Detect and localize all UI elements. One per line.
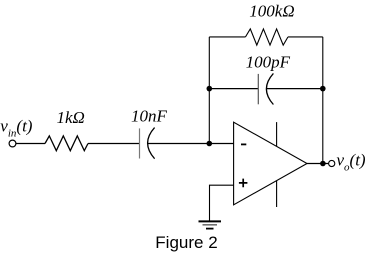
- wire top feedback horizontal left: [209, 36, 245, 38]
- ground: [199, 221, 222, 228]
- output terminal v_o(t): [329, 160, 335, 166]
- op-amp U1 negative supply pin: [276, 181, 278, 207]
- capacitor C1 10nF right curved plate: [148, 128, 155, 159]
- wire non-inverting input to ground drop: [210, 185, 234, 221]
- svg-text:1kΩ: 1kΩ: [57, 108, 85, 127]
- resistor R2 100k zigzag: [246, 29, 289, 45]
- wire feedback left vertical: [208, 37, 210, 144]
- svg-text:10nF: 10nF: [131, 107, 168, 126]
- node D junction dot (output): [320, 161, 326, 167]
- input terminal v_in(t): [9, 140, 16, 147]
- svg-text:Figure 2: Figure 2: [155, 233, 217, 252]
- op-amp U1 positive supply pin: [276, 122, 278, 146]
- svg-text:100kΩ: 100kΩ: [249, 2, 294, 21]
- wire op-amp output: [307, 163, 328, 165]
- capacitor C2 100pF right curved plate: [266, 73, 273, 104]
- wire feedback right vertical: [322, 37, 324, 164]
- wire top feedback horizontal right: [288, 36, 323, 38]
- wire R1 to C1: [88, 143, 140, 145]
- svg-text:100pF: 100pF: [246, 52, 291, 71]
- wire C1 to inverting-input node: [148, 143, 234, 145]
- wire 100pF branch right segment: [267, 88, 323, 90]
- resistor R1 1k zigzag: [45, 136, 88, 151]
- op-amp U1 plus sign: [239, 179, 248, 188]
- svg-text:vin(t): vin(t): [0, 116, 32, 139]
- node C junction dot (right of 100pF): [320, 86, 326, 92]
- node A junction dot (inverting input): [207, 141, 213, 147]
- op-amp U1 triangle: [234, 122, 307, 205]
- node B junction dot (left of 100pF): [207, 86, 213, 92]
- capacitor C2 100pF left plate: [257, 74, 259, 104]
- wire input terminal to R1: [16, 143, 45, 145]
- svg-text:vo(t): vo(t): [337, 150, 365, 173]
- wire 100pF branch left segment: [209, 88, 258, 90]
- capacitor C1 10nF left plate: [139, 128, 141, 158]
- op-amp U1 minus sign: [241, 143, 246, 145]
